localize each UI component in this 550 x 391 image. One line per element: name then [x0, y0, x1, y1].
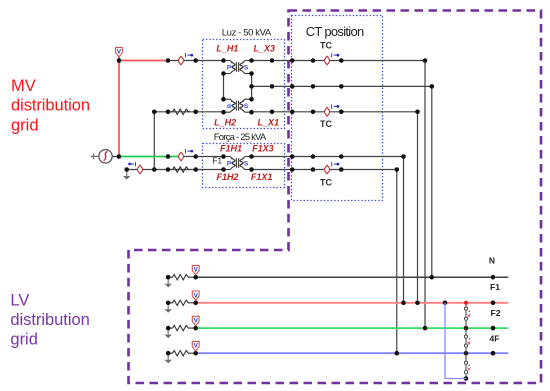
svg-text:L_X3: L_X3	[253, 44, 275, 54]
svg-text:S: S	[244, 65, 249, 72]
svg-text:F1X1: F1X1	[251, 172, 273, 182]
svg-text:L_H2: L_H2	[214, 117, 236, 127]
svg-text:Luz - 50 kVA: Luz - 50 kVA	[222, 28, 272, 39]
svg-text:F2: F2	[491, 308, 501, 318]
svg-text:LV: LV	[10, 291, 29, 309]
svg-text:L_H1: L_H1	[216, 44, 238, 54]
svg-text:L_X1: L_X1	[257, 117, 279, 127]
svg-text:P: P	[227, 65, 232, 72]
svg-text:Força - 25 kVA: Força - 25 kVA	[214, 132, 267, 143]
svg-text:TC: TC	[320, 178, 332, 188]
svg-text:CT position: CT position	[306, 24, 365, 39]
svg-text:S: S	[244, 103, 249, 110]
svg-text:d: d	[227, 103, 231, 110]
svg-text:F1: F1	[490, 282, 500, 292]
svg-text:F1H1: F1H1	[220, 143, 242, 153]
svg-text:grid: grid	[11, 117, 39, 135]
svg-text:F1H2: F1H2	[216, 172, 238, 182]
svg-text:P: P	[227, 161, 232, 168]
svg-text:distribution: distribution	[10, 311, 89, 329]
svg-text:4F: 4F	[490, 333, 500, 343]
svg-text:grid: grid	[10, 331, 38, 349]
svg-text:TC: TC	[320, 119, 332, 129]
svg-text:N: N	[489, 256, 495, 266]
svg-text:F1: F1	[212, 155, 222, 165]
svg-text:S: S	[244, 161, 249, 168]
svg-text:TC: TC	[320, 40, 332, 50]
svg-text:F1X3: F1X3	[252, 143, 274, 153]
svg-text:MV: MV	[11, 77, 36, 95]
svg-text:distribution: distribution	[11, 97, 90, 115]
